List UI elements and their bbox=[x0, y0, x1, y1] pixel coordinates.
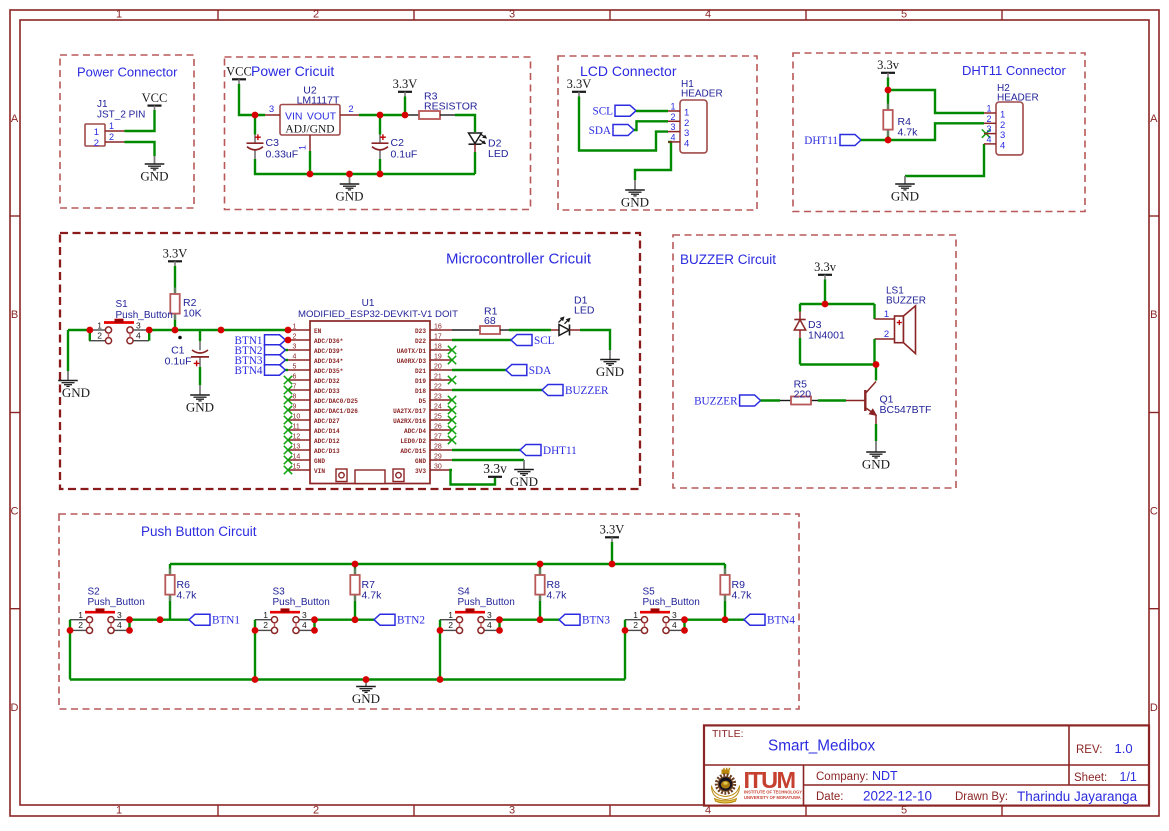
svg-text:BTN3: BTN3 bbox=[582, 615, 610, 627]
svg-text:GND: GND bbox=[140, 169, 168, 184]
svg-text:D19: D19 bbox=[415, 378, 426, 385]
svg-text:A: A bbox=[1150, 113, 1158, 125]
svg-text:UA0TX/D1: UA0TX/D1 bbox=[397, 348, 427, 355]
svg-text:Push_Button: Push_Button bbox=[116, 310, 173, 321]
svg-text:Drawn By:: Drawn By: bbox=[955, 791, 1008, 803]
svg-text:Date:: Date: bbox=[816, 791, 844, 803]
svg-text:1: 1 bbox=[448, 610, 453, 620]
svg-text:1.0: 1.0 bbox=[1115, 741, 1133, 756]
svg-text:S3: S3 bbox=[273, 587, 286, 598]
svg-text:1: 1 bbox=[97, 321, 102, 331]
svg-text:3: 3 bbox=[672, 610, 677, 620]
svg-text:3: 3 bbox=[293, 344, 297, 351]
svg-text:1: 1 bbox=[78, 610, 83, 620]
svg-text:12: 12 bbox=[293, 434, 301, 441]
svg-text:23: 23 bbox=[434, 394, 442, 401]
svg-text:DHT11: DHT11 bbox=[804, 135, 838, 147]
svg-text:ADJ/GND: ADJ/GND bbox=[285, 124, 334, 136]
svg-text:3: 3 bbox=[670, 122, 675, 132]
svg-text:1/1: 1/1 bbox=[1120, 770, 1137, 784]
svg-text:Power Connector: Power Connector bbox=[77, 65, 178, 80]
svg-text:16: 16 bbox=[434, 324, 442, 331]
svg-text:D18: D18 bbox=[415, 388, 426, 395]
svg-text:29: 29 bbox=[434, 454, 442, 461]
svg-text:3.3V: 3.3V bbox=[163, 247, 188, 261]
svg-text:4.7k: 4.7k bbox=[732, 590, 753, 602]
svg-text:3: 3 bbox=[487, 610, 492, 620]
svg-text:10K: 10K bbox=[183, 308, 202, 320]
svg-text:13: 13 bbox=[293, 444, 301, 451]
svg-text:C: C bbox=[11, 506, 19, 518]
svg-text:4: 4 bbox=[136, 331, 141, 341]
svg-text:LCD Connector: LCD Connector bbox=[580, 63, 677, 79]
svg-text:LED0/D2: LED0/D2 bbox=[400, 438, 426, 445]
svg-text:2: 2 bbox=[633, 620, 638, 630]
svg-text:15: 15 bbox=[293, 464, 301, 471]
svg-text:ADC/D14: ADC/D14 bbox=[314, 428, 340, 435]
svg-text:0.1uF: 0.1uF bbox=[391, 149, 418, 161]
svg-text:BUZZER Circuit: BUZZER Circuit bbox=[680, 252, 776, 267]
svg-text:1: 1 bbox=[986, 104, 991, 114]
svg-text:14: 14 bbox=[293, 454, 301, 461]
svg-text:68: 68 bbox=[484, 315, 496, 327]
svg-text:UNIVERSITY OF MORATUWA: UNIVERSITY OF MORATUWA bbox=[744, 795, 801, 800]
svg-text:A: A bbox=[11, 113, 19, 125]
svg-text:0.33uF: 0.33uF bbox=[266, 149, 299, 161]
svg-text:Power Cricuit: Power Cricuit bbox=[251, 63, 334, 79]
svg-text:2: 2 bbox=[348, 104, 353, 115]
svg-text:4: 4 bbox=[487, 620, 492, 630]
svg-text:UA0RX/D3: UA0RX/D3 bbox=[397, 358, 427, 365]
svg-text:1: 1 bbox=[263, 610, 268, 620]
svg-text:GND: GND bbox=[862, 457, 890, 472]
svg-text:220: 220 bbox=[794, 389, 812, 401]
svg-text:4: 4 bbox=[293, 354, 297, 361]
svg-text:ADC/DAC1/D26: ADC/DAC1/D26 bbox=[314, 408, 358, 415]
svg-text:3V3: 3V3 bbox=[415, 468, 426, 475]
svg-text:0.1uF: 0.1uF bbox=[165, 356, 192, 368]
svg-text:4: 4 bbox=[684, 138, 689, 149]
svg-text:D: D bbox=[1150, 702, 1158, 714]
svg-text:GND: GND bbox=[510, 474, 538, 489]
svg-text:5: 5 bbox=[901, 9, 907, 21]
svg-text:RESISTOR: RESISTOR bbox=[424, 101, 478, 113]
svg-text:D23: D23 bbox=[415, 328, 426, 335]
svg-text:1: 1 bbox=[633, 610, 638, 620]
svg-text:28: 28 bbox=[434, 444, 442, 451]
svg-text:2022-12-10: 2022-12-10 bbox=[863, 789, 932, 804]
svg-text:C: C bbox=[1150, 506, 1158, 518]
svg-text:3.3v: 3.3v bbox=[814, 260, 837, 274]
svg-text:LM1117T: LM1117T bbox=[297, 95, 340, 107]
svg-text:GND: GND bbox=[596, 364, 624, 379]
svg-text:BC547BTF: BC547BTF bbox=[880, 404, 932, 416]
svg-text:VIN: VIN bbox=[285, 111, 303, 123]
svg-text:5: 5 bbox=[293, 364, 297, 371]
svg-text:2: 2 bbox=[670, 112, 675, 122]
svg-text:1: 1 bbox=[109, 121, 114, 131]
svg-text:25: 25 bbox=[434, 414, 442, 421]
svg-text:2: 2 bbox=[313, 805, 319, 817]
svg-text:2: 2 bbox=[97, 331, 102, 341]
svg-text:4: 4 bbox=[986, 134, 991, 144]
svg-text:4: 4 bbox=[117, 620, 122, 630]
svg-text:S2: S2 bbox=[88, 587, 101, 598]
svg-text:BTN4: BTN4 bbox=[235, 365, 263, 377]
svg-text:VCC: VCC bbox=[226, 65, 252, 79]
svg-text:TITLE:: TITLE: bbox=[712, 728, 744, 740]
svg-text:26: 26 bbox=[434, 424, 442, 431]
svg-text:2: 2 bbox=[448, 620, 453, 630]
svg-text:2: 2 bbox=[313, 9, 319, 21]
svg-text:9: 9 bbox=[293, 404, 297, 411]
svg-text:2: 2 bbox=[78, 620, 83, 630]
svg-text:DHT11: DHT11 bbox=[543, 445, 577, 457]
svg-text:J1: J1 bbox=[97, 99, 108, 110]
svg-text:C2: C2 bbox=[391, 137, 405, 149]
svg-text:2: 2 bbox=[293, 334, 297, 341]
svg-text:Push Button Circuit: Push Button Circuit bbox=[141, 524, 257, 539]
svg-text:MODIFIED_ESP32-DEVKIT-V1 DOIT: MODIFIED_ESP32-DEVKIT-V1 DOIT bbox=[298, 309, 458, 320]
svg-text:ADC/D36*: ADC/D36* bbox=[314, 338, 343, 345]
svg-text:GND: GND bbox=[314, 458, 325, 465]
svg-text:3: 3 bbox=[117, 610, 122, 620]
svg-text:HEADER: HEADER bbox=[997, 93, 1039, 104]
svg-text:D22: D22 bbox=[415, 338, 426, 345]
svg-text:ADC/D32: ADC/D32 bbox=[314, 378, 340, 385]
svg-text:SCL: SCL bbox=[534, 335, 555, 347]
svg-text:VOUT: VOUT bbox=[307, 111, 337, 123]
svg-text:ADC/D34*: ADC/D34* bbox=[314, 358, 343, 365]
svg-text:30: 30 bbox=[434, 464, 442, 471]
svg-text:DHT11 Connector: DHT11 Connector bbox=[962, 63, 1066, 78]
svg-text:BTN1: BTN1 bbox=[212, 615, 240, 627]
svg-text:Push_Button: Push_Button bbox=[458, 597, 515, 608]
svg-text:Push_Button: Push_Button bbox=[273, 597, 330, 608]
svg-text:1: 1 bbox=[298, 145, 308, 150]
svg-text:18: 18 bbox=[434, 344, 442, 351]
svg-text:SDA: SDA bbox=[589, 125, 611, 137]
svg-text:24: 24 bbox=[434, 404, 442, 411]
svg-text:7: 7 bbox=[293, 384, 297, 391]
svg-text:ADC/D35*: ADC/D35* bbox=[314, 368, 343, 375]
svg-text:B: B bbox=[1150, 309, 1157, 321]
svg-text:BTN2: BTN2 bbox=[397, 615, 425, 627]
svg-text:3.3V: 3.3V bbox=[393, 77, 418, 91]
svg-text:4: 4 bbox=[670, 132, 675, 142]
svg-text:SDA: SDA bbox=[529, 365, 551, 377]
svg-text:D5: D5 bbox=[419, 398, 427, 405]
svg-text:1: 1 bbox=[116, 805, 122, 817]
svg-text:D: D bbox=[11, 702, 19, 714]
svg-text:ADC/D27: ADC/D27 bbox=[314, 418, 340, 425]
svg-text:VIN: VIN bbox=[314, 468, 325, 475]
svg-text:3.3v: 3.3v bbox=[483, 461, 507, 476]
svg-text:8: 8 bbox=[293, 394, 297, 401]
svg-text:GND: GND bbox=[186, 400, 214, 415]
svg-text:4: 4 bbox=[1000, 140, 1005, 151]
svg-text:4: 4 bbox=[672, 620, 677, 630]
svg-text:11: 11 bbox=[293, 424, 300, 431]
svg-text:NDT: NDT bbox=[872, 769, 898, 783]
svg-text:GND: GND bbox=[352, 691, 380, 706]
svg-text:2: 2 bbox=[94, 138, 99, 149]
svg-text:S5: S5 bbox=[643, 587, 656, 598]
svg-text:UA2TX/D17: UA2TX/D17 bbox=[393, 408, 426, 415]
svg-text:ADC/D12: ADC/D12 bbox=[314, 438, 340, 445]
svg-text:2: 2 bbox=[884, 329, 889, 340]
svg-text:Company:: Company: bbox=[816, 771, 868, 783]
svg-text:3.3v: 3.3v bbox=[877, 58, 900, 72]
svg-text:U1: U1 bbox=[362, 298, 375, 309]
svg-text:REV:: REV: bbox=[1076, 744, 1102, 756]
svg-text:ADC/D13: ADC/D13 bbox=[314, 448, 340, 455]
svg-text:GND: GND bbox=[62, 385, 90, 400]
svg-text:UA2RX/D16: UA2RX/D16 bbox=[393, 418, 426, 425]
svg-text:6: 6 bbox=[293, 374, 297, 381]
svg-text:3.3V: 3.3V bbox=[600, 523, 625, 537]
svg-text:LED: LED bbox=[488, 148, 509, 160]
svg-text:Microcontroller Cricuit: Microcontroller Cricuit bbox=[446, 251, 592, 268]
svg-text:SCL: SCL bbox=[592, 106, 613, 118]
svg-text:3: 3 bbox=[509, 805, 515, 817]
svg-text:4.7k: 4.7k bbox=[362, 590, 383, 602]
svg-text:Smart_Medibox: Smart_Medibox bbox=[768, 738, 875, 755]
svg-text:B: B bbox=[11, 309, 18, 321]
svg-text:EN: EN bbox=[314, 328, 322, 335]
svg-text:GND: GND bbox=[621, 195, 649, 210]
svg-text:VCC: VCC bbox=[142, 91, 168, 105]
svg-text:Push_Button: Push_Button bbox=[643, 597, 700, 608]
svg-text:1: 1 bbox=[116, 9, 122, 21]
svg-text:2: 2 bbox=[263, 620, 268, 630]
svg-text:4: 4 bbox=[705, 9, 711, 21]
svg-text:D21: D21 bbox=[415, 368, 426, 375]
svg-text:1: 1 bbox=[293, 324, 297, 331]
svg-text:3: 3 bbox=[136, 321, 141, 331]
svg-text:10: 10 bbox=[293, 414, 301, 421]
svg-text:GND: GND bbox=[335, 189, 363, 204]
svg-text:3: 3 bbox=[509, 9, 515, 21]
svg-text:GND: GND bbox=[415, 458, 426, 465]
svg-text:2: 2 bbox=[986, 114, 991, 124]
svg-text:ADC/D33: ADC/D33 bbox=[314, 388, 340, 395]
svg-text:4: 4 bbox=[302, 620, 307, 630]
svg-text:22: 22 bbox=[434, 384, 442, 391]
svg-text:ADC/D39*: ADC/D39* bbox=[314, 348, 343, 355]
svg-text:4.7k: 4.7k bbox=[177, 590, 198, 602]
svg-text:LED: LED bbox=[574, 305, 595, 317]
svg-text:ADC/D4: ADC/D4 bbox=[404, 428, 426, 435]
svg-text:3: 3 bbox=[986, 124, 991, 134]
svg-text:3.3V: 3.3V bbox=[567, 77, 592, 91]
svg-text:JST_2 PIN: JST_2 PIN bbox=[97, 110, 145, 121]
svg-text:1: 1 bbox=[94, 127, 99, 138]
svg-text:BUZZER: BUZZER bbox=[694, 396, 738, 408]
svg-text:20: 20 bbox=[434, 364, 442, 371]
svg-text:HEADER: HEADER bbox=[681, 89, 723, 100]
svg-text:GND: GND bbox=[891, 189, 919, 204]
svg-text:S4: S4 bbox=[458, 587, 471, 598]
svg-text:21: 21 bbox=[434, 374, 442, 381]
svg-text:BUZZER: BUZZER bbox=[886, 296, 926, 307]
svg-text:1N4001: 1N4001 bbox=[808, 330, 845, 342]
svg-text:S1: S1 bbox=[116, 299, 129, 310]
svg-text:1: 1 bbox=[670, 102, 675, 112]
svg-text:Tharindu Jayaranga: Tharindu Jayaranga bbox=[1017, 789, 1138, 804]
svg-text:Sheet:: Sheet: bbox=[1074, 772, 1107, 784]
svg-text:3: 3 bbox=[269, 104, 274, 115]
svg-text:2: 2 bbox=[109, 132, 114, 142]
svg-text:BUZZER: BUZZER bbox=[565, 385, 609, 397]
svg-text:19: 19 bbox=[434, 354, 442, 361]
svg-text:27: 27 bbox=[434, 434, 442, 441]
svg-text:Push_Button: Push_Button bbox=[88, 597, 145, 608]
svg-text:1: 1 bbox=[884, 309, 889, 320]
svg-text:C3: C3 bbox=[266, 137, 280, 149]
svg-text:ADC/DAC0/D25: ADC/DAC0/D25 bbox=[314, 398, 358, 405]
svg-text:3: 3 bbox=[302, 610, 307, 620]
svg-text:4.7k: 4.7k bbox=[898, 127, 919, 139]
svg-text:ADC/D15: ADC/D15 bbox=[400, 448, 426, 455]
svg-text:4.7k: 4.7k bbox=[547, 590, 568, 602]
svg-text:17: 17 bbox=[434, 334, 442, 341]
svg-text:BTN4: BTN4 bbox=[767, 615, 795, 627]
